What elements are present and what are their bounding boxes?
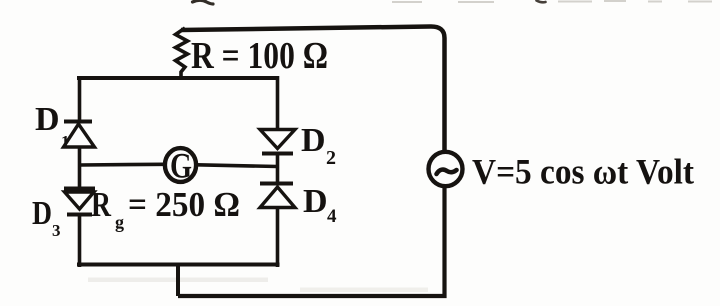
svg-text:3: 3	[52, 221, 61, 240]
svg-text:D: D	[35, 101, 60, 138]
wire middle left	[80, 163, 165, 167]
svg-text:R = 100 Ω: R = 100 Ω	[191, 35, 328, 77]
scan smudge under bridge	[88, 278, 268, 283]
svg-text:R: R	[91, 185, 112, 224]
wire bridge top	[77, 76, 279, 80]
svg-text:G: G	[170, 146, 192, 186]
wire bridge bottom	[77, 263, 280, 267]
wire right branch upper	[276, 76, 280, 130]
wire right branch middle	[276, 153, 280, 184]
svg-text:D: D	[301, 122, 326, 159]
diode D3	[64, 189, 95, 215]
galvanometer G	[165, 146, 196, 186]
scan artifact top-left	[193, 0, 214, 4]
scan artifact top-right	[537, 1, 546, 3]
resistor R zigzag	[176, 28, 188, 78]
svg-text:= 250 Ω: = 250 Ω	[128, 185, 240, 224]
wire left branch middle	[78, 147, 82, 189]
wire top horizontal	[181, 26, 445, 151]
AC source V	[429, 152, 463, 186]
svg-text:1: 1	[61, 132, 70, 151]
svg-text:V=5 cos ωt Volt: V=5 cos ωt Volt	[472, 152, 694, 192]
wire left branch lower	[78, 214, 82, 267]
diode D2	[260, 130, 295, 154]
wire bottom horizontal	[178, 184, 445, 296]
svg-text:D: D	[303, 183, 328, 220]
diode D4	[260, 184, 295, 208]
wire bottom connector	[176, 265, 180, 297]
wire left branch upper	[78, 76, 82, 122]
wire middle right	[197, 165, 278, 167]
svg-text:g: g	[115, 212, 124, 232]
svg-text:2: 2	[326, 147, 336, 169]
svg-text:4: 4	[327, 206, 337, 227]
diode D1	[64, 122, 95, 148]
wire right branch lower	[276, 207, 280, 267]
svg-text:D: D	[32, 195, 52, 232]
